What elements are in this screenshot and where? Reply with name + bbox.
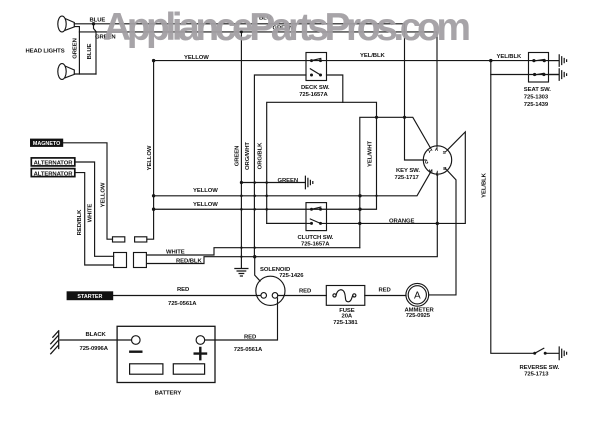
junction org/wht at white wire	[254, 247, 256, 249]
solenoid circle	[256, 276, 285, 305]
wire YEL/BLK right vertical to reverse switch	[491, 61, 535, 354]
key switch terminal ticks	[423, 146, 447, 174]
ground (middle right of green label)	[305, 176, 312, 189]
svg-text:YEL/BLK: YEL/BLK	[360, 53, 385, 59]
svg-text:YELLOW: YELLOW	[193, 188, 218, 194]
svg-text:725-1426: 725-1426	[279, 273, 304, 279]
text labels vertical (rotated)	[72, 38, 487, 235]
svg-text:WHITE: WHITE	[88, 204, 94, 223]
svg-text:YEL/BLK: YEL/BLK	[482, 172, 488, 197]
battery terminal plus	[196, 336, 205, 345]
junction blue wire to lower lamp	[92, 22, 95, 25]
svg-text:REVERSE SW.: REVERSE SW.	[520, 365, 560, 371]
fuse element	[333, 294, 336, 297]
wire GREEN branch to ground (middle)	[241, 182, 305, 184]
wire WHITE from connector	[147, 248, 360, 255]
junction green wire drop	[240, 30, 243, 33]
svg-text:725-1381: 725-1381	[333, 320, 358, 326]
junction green at white wire	[240, 247, 242, 249]
deck switch terminal 1	[310, 59, 313, 62]
svg-text:725-0996A: 725-0996A	[80, 346, 109, 352]
wire GREEN vertical drop to ground	[240, 32, 242, 268]
junction yellow1 branch	[152, 194, 155, 197]
svg-text:WHITE: WHITE	[166, 249, 185, 255]
alternator label box 2	[31, 169, 75, 177]
wire BLUE horizontal from top lamp to right turn-down and key G	[74, 24, 423, 160]
wire A-line and V360 white riser	[360, 117, 430, 247]
svg-text:725-1717: 725-1717	[395, 175, 420, 181]
deck switch blades	[310, 58, 321, 75]
battery ground wire BLACK	[60, 339, 132, 341]
svg-text:ORG/BLK: ORG/BLK	[258, 142, 264, 169]
ground (seat top)	[559, 55, 566, 67]
svg-text:ORANGE: ORANGE	[389, 219, 415, 225]
alternator1 wire (white)	[75, 162, 114, 256]
svg-text:725-1657A: 725-1657A	[301, 241, 330, 247]
wire solenoid to fuse	[278, 295, 327, 297]
junction green at yellow2	[240, 208, 243, 211]
svg-text:YEL/WHT: YEL/WHT	[368, 141, 374, 167]
magneto label box	[30, 139, 63, 147]
wire seat sw bottom line	[491, 74, 559, 76]
alternator2 wire (red/blk)	[75, 173, 114, 265]
wire GREEN horizontal to key switch top	[79, 32, 437, 146]
seat switch blades	[534, 59, 544, 75]
deck switch terminal 2	[319, 59, 322, 62]
reverse switch blade and stub	[535, 348, 559, 353]
key switch terminal letters Y A S G M L B	[425, 147, 448, 176]
junction green vertical to ground branch	[240, 181, 243, 184]
svg-text:RED: RED	[177, 287, 189, 293]
connector square pair (alternator)	[114, 253, 127, 268]
ammeter M1	[406, 283, 429, 306]
seat switch ground stubs	[549, 61, 559, 75]
headlight lamp bottom	[58, 64, 75, 80]
svg-text:ORG/WHT: ORG/WHT	[245, 142, 251, 170]
junction key L wire at orange	[436, 222, 439, 225]
svg-text:RED/BLK: RED/BLK	[77, 209, 83, 235]
svg-text:725-1303: 725-1303	[524, 94, 549, 100]
junction white riser at yellow1	[358, 194, 361, 197]
svg-text:GREEN: GREEN	[235, 146, 241, 167]
svg-text:RED: RED	[379, 288, 391, 294]
headlight lamp top	[58, 16, 75, 32]
junction green at yellow1	[240, 195, 243, 198]
svg-text:725-1713: 725-1713	[524, 372, 549, 378]
junction yel/blk to reverse switch	[489, 59, 492, 62]
svg-text:RED: RED	[299, 288, 311, 294]
wire YELLOW#1 branch to key M	[154, 172, 431, 196]
wire RED/BLK from connector to key L vertical	[147, 174, 437, 263]
wire YELLOW horizontal top	[154, 60, 559, 62]
wire key B diagonal to ammeter	[429, 171, 456, 295]
junction yel/wht riser and key Y line	[375, 116, 378, 119]
wire deck sw bottom-right drop	[327, 75, 343, 102]
junction org/wht at red/blk wire	[253, 255, 256, 258]
svg-text:S: S	[443, 150, 446, 155]
solenoid terminals	[261, 293, 267, 299]
svg-text:KEY SW.: KEY SW.	[396, 168, 420, 174]
svg-text:BATTERY: BATTERY	[155, 390, 182, 396]
seat switch terminal 2	[543, 59, 546, 62]
wire deck sw bottom-left to ORG/WHT vertical and solenoid	[254, 75, 306, 281]
svg-text:725-0925: 725-0925	[406, 313, 431, 319]
svg-text:A: A	[414, 291, 421, 302]
svg-text:HEAD LIGHTS: HEAD LIGHTS	[26, 48, 65, 54]
svg-text:YELLOW: YELLOW	[147, 145, 153, 170]
seat switch box	[529, 53, 549, 83]
ground (reverse switch)	[559, 347, 566, 360]
battery terminal minus	[132, 336, 141, 345]
junction blue vertical and key Y line	[403, 116, 406, 119]
clutch switch terminal 2	[319, 208, 322, 211]
clutch switch blades	[310, 207, 321, 223]
svg-text:YELLOW: YELLOW	[193, 202, 218, 208]
clutch switch terminal 3	[310, 222, 313, 225]
svg-text:GREEN: GREEN	[72, 38, 78, 59]
ground (center, below green vertical)	[235, 269, 248, 277]
key switch U1 circle	[423, 146, 451, 174]
deck switch terminal 3	[310, 74, 313, 77]
svg-text:SEAT SW.: SEAT SW.	[524, 87, 552, 93]
deck switch terminal 4	[319, 74, 322, 77]
junction org/wht at green branch	[253, 181, 256, 184]
battery cell rects	[130, 364, 163, 374]
wire bottom lamp stub	[74, 73, 96, 75]
alternator label box 1	[31, 158, 75, 166]
junction yellow feed	[152, 59, 155, 62]
minus symbol	[130, 351, 141, 353]
junction org/wht at yellow2	[253, 208, 256, 211]
junction org/wht at yellow1	[253, 195, 256, 198]
battery box	[117, 326, 215, 382]
junction green at red/blk wire	[240, 256, 242, 258]
svg-text:725-1439: 725-1439	[524, 102, 549, 108]
junction white riser at yellow2	[358, 208, 361, 211]
svg-text:BLUE: BLUE	[87, 43, 93, 59]
wire clutch bottom-left segment	[267, 222, 312, 224]
seat switch terminal 1	[532, 59, 535, 62]
ground (seat bottom)	[559, 69, 566, 81]
junction white riser at orange	[358, 222, 361, 225]
svg-text:YEL/BLK: YEL/BLK	[497, 54, 522, 60]
starter label box	[67, 291, 114, 300]
fuse box F1	[326, 286, 365, 306]
wire solenoid to battery plus	[205, 298, 278, 340]
svg-text:STARTER: STARTER	[77, 294, 102, 300]
svg-text:DECK SW.: DECK SW.	[301, 85, 330, 91]
seat switch terminal 4	[542, 73, 545, 76]
clutch switch terminal 4	[319, 222, 322, 225]
svg-text:AppliancePartsPros.com: AppliancePartsPros.com	[103, 6, 471, 49]
junction yel/wht riser at yellow1	[375, 195, 377, 197]
inverted label boxes	[30, 139, 113, 301]
svg-text:RED: RED	[244, 334, 256, 340]
clutch switch box	[306, 203, 327, 231]
wire blue drop to bottom lamp	[94, 24, 97, 74]
text labels horizontal	[26, 16, 560, 397]
wire fuse to ammeter	[365, 295, 406, 297]
svg-text:CLUTCH SW.: CLUTCH SW.	[298, 235, 334, 241]
svg-text:BLACK: BLACK	[86, 332, 107, 338]
svg-text:725-0561A: 725-0561A	[168, 301, 197, 307]
plus symbol	[195, 348, 206, 359]
svg-text:725-1657A: 725-1657A	[299, 92, 328, 98]
seat switch terminal 3	[533, 73, 536, 76]
junction org/blk at green branch	[265, 181, 268, 184]
svg-text:GREEN: GREEN	[278, 178, 299, 184]
wire YELLOW vertical to connector	[147, 61, 154, 240]
reverse switch terminal 1	[533, 352, 536, 355]
svg-text:725-0561A: 725-0561A	[234, 347, 263, 353]
junction org/blk at yellow2	[265, 208, 268, 211]
ground (battery, chassis hatched)	[51, 331, 59, 354]
svg-text:RED/BLK: RED/BLK	[176, 259, 202, 265]
connector rect pair (magneto/yellow)	[113, 237, 125, 242]
svg-text:YELLOW: YELLOW	[184, 55, 209, 61]
wire YELLOW#2 branch / clutch top line to V376	[154, 102, 377, 223]
reverse switch terminal 2	[544, 352, 547, 355]
svg-text:ALTERNATOR: ALTERNATOR	[34, 161, 74, 167]
svg-text:20A: 20A	[342, 313, 353, 319]
wire ORANGE line clutch to key S vertical	[321, 132, 466, 224]
deck switch box	[306, 53, 327, 81]
junction yellow2 branch	[152, 208, 155, 211]
starter wire RED	[113, 295, 261, 297]
svg-text:ALTERNATOR: ALTERNATOR	[34, 171, 74, 177]
magneto wire to connector	[63, 143, 112, 239]
clutch switch terminal 1	[310, 208, 313, 211]
svg-text:MAGNETO: MAGNETO	[33, 141, 60, 147]
wire lamp stub to green vertical	[74, 27, 79, 74]
junction org/blk at yellow1	[265, 195, 268, 198]
svg-text:YELLOW: YELLOW	[101, 182, 107, 207]
